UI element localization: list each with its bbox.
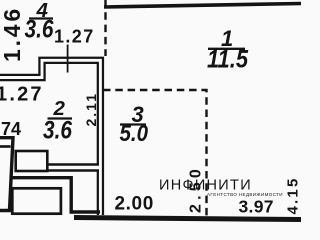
svg-text:11.5: 11.5 — [207, 46, 249, 74]
wall top outer — [104, 4, 301, 8]
dashed vertical line at top (x~105) — [104, 0, 106, 56]
svg-text:3.97: 3.97 — [239, 197, 274, 217]
wall from box1 to main wall (double) — [46, 163, 99, 172]
dashed boundary of room 3 — [103, 90, 207, 216]
box bathroom box1 — [16, 151, 48, 171]
wall inner arm — [0, 145, 11, 148]
tick for dimension 1.27 — [67, 45, 69, 73]
svg-text:2.00: 2.00 — [115, 194, 154, 215]
svg-text:3.6: 3.6 — [43, 117, 73, 145]
wall lower corridor: horiz, down, bottom across — [11, 178, 100, 212]
wall bottom outer — [74, 218, 301, 220]
svg-text:1.27: 1.27 — [54, 27, 95, 47]
wall left lower outer L — [0, 138, 13, 211]
svg-text:2.11: 2.11 — [83, 92, 99, 126]
svg-text:5.0: 5.0 — [120, 120, 149, 146]
svg-text:АГЕНТСТВО НЕДВИЖИМОСТИ: АГЕНТСТВО НЕДВИЖИМОСТИ — [207, 192, 283, 197]
svg-text:3.6: 3.6 — [25, 16, 55, 44]
svg-text:4.15: 4.15 — [285, 177, 302, 215]
svg-text:74: 74 — [1, 119, 21, 139]
svg-text:1.27: 1.27 — [0, 84, 44, 106]
box bathroom box2 — [12, 188, 61, 213]
wall left-top double wall with jog and main vertical wall — [0, 60, 100, 215]
svg-text:1.46: 1.46 — [0, 6, 25, 62]
